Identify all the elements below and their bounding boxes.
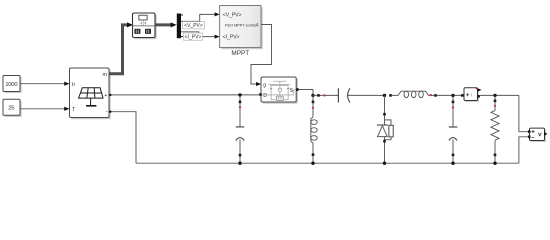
- stem: [142, 20, 144, 26]
- node diode junction: [383, 94, 386, 97]
- port square inductor L2 right: [434, 94, 437, 97]
- MOSFET icon: [262, 81, 296, 100]
- red node: [323, 94, 325, 96]
- svg-text:<I_PV>: <I_PV>: [223, 35, 240, 41]
- port square D1 top: [383, 113, 386, 116]
- svg-text:<V_PV>: <V_PV>: [223, 12, 242, 18]
- node C2 bottom: [451, 162, 454, 165]
- meter arrows: [140, 22, 142, 25]
- port square current measurement in: [461, 94, 464, 97]
- capacitor C1: [236, 95, 245, 163]
- signal wire V_PV: [181, 12, 220, 21]
- port square series cap left: [317, 94, 320, 97]
- node D1 bottom: [383, 162, 386, 165]
- node PV+: [109, 94, 111, 96]
- connector square left: [134, 29, 140, 34]
- bus wire to bus selector: [155, 22, 177, 27]
- wire series cap to diode node: [347, 94, 385, 96]
- signal v out arrow: [544, 132, 548, 136]
- svg-text:+: +: [104, 93, 107, 99]
- constant block Ir=1000: [3, 76, 22, 94]
- bottom rail: [136, 162, 519, 164]
- MPPT subsystem block U1: [220, 6, 263, 50]
- svg-text:P&O MPPT control: P&O MPPT control: [225, 23, 257, 27]
- wire 1000 to Ir: [21, 82, 70, 86]
- svg-text:<V_PV>: <V_PV>: [184, 23, 203, 29]
- svg-text:S: S: [290, 88, 294, 94]
- signal out arrow: [478, 88, 482, 91]
- node cap C2 top junction: [451, 94, 454, 97]
- wire L2 to current measurement: [437, 94, 462, 96]
- node R1 bottom: [493, 162, 496, 165]
- inductor L1 shunt: [311, 95, 317, 163]
- svg-text:D: D: [263, 93, 267, 99]
- node L1 bottom: [311, 162, 314, 165]
- wire S node to series capacitor: [313, 94, 338, 96]
- svg-text:Ir: Ir: [72, 82, 75, 88]
- signal wire I_PV: [181, 32, 220, 39]
- wire 25 to T: [21, 107, 70, 111]
- node cap C1 top junction: [238, 93, 241, 96]
- wire PV minus down: [110, 112, 137, 164]
- port square R1 bottom: [494, 154, 497, 157]
- svg-text:MPPT: MPPT: [231, 50, 249, 57]
- node C1 bottom: [238, 162, 241, 165]
- voltage measurement block: [530, 128, 548, 142]
- wire corner down to Vmeas plus: [519, 95, 528, 131]
- current measurement block: [464, 88, 482, 102]
- label V_PV: [183, 22, 205, 29]
- solar panel icon: [79, 88, 103, 106]
- display icon: [139, 15, 147, 20]
- red node L1: [312, 107, 314, 109]
- wire current measurement to corner: [480, 94, 519, 96]
- PV array block: [70, 68, 111, 119]
- divider: [133, 25, 156, 27]
- bus selector: [177, 14, 183, 39]
- port square D: [259, 93, 262, 96]
- inductor L2 series: [392, 91, 434, 97]
- bus wire m to measurement subsystem: [109, 22, 133, 73]
- node resistor top junction: [493, 94, 496, 97]
- port square current measurement out: [477, 95, 480, 98]
- diode D1: [377, 95, 393, 163]
- wire MOSFET S jog: [299, 90, 313, 96]
- measurement subsystem block: [133, 13, 157, 39]
- red node: [430, 94, 432, 96]
- red mark: [476, 88, 478, 90]
- port square L1 bottom: [312, 153, 315, 156]
- port square S: [296, 88, 299, 91]
- port square R1 top: [494, 100, 497, 103]
- red node R1: [494, 105, 496, 107]
- port square inductor L2 left: [389, 94, 392, 97]
- gate signal wire MPPT to MOSFET g: [251, 25, 272, 87]
- port square Vmeas minus: [528, 136, 531, 139]
- label I_PV: [184, 33, 203, 40]
- node S junction: [311, 94, 314, 97]
- svg-text:m: m: [103, 72, 108, 78]
- capacitor C2: [449, 95, 458, 163]
- port square L1 top: [312, 101, 315, 104]
- resistor R1 load: [491, 95, 499, 163]
- port square Vmeas plus: [528, 130, 531, 133]
- node PV minus: [109, 111, 111, 113]
- svg-text:-: -: [106, 110, 108, 116]
- port square D1 bottom: [383, 140, 386, 143]
- svg-text:g: g: [263, 83, 266, 89]
- svg-text:<I_PV>: <I_PV>: [185, 34, 202, 40]
- MOSFET block Q1: [261, 77, 298, 104]
- svg-text:25: 25: [8, 106, 15, 112]
- connector square right: [145, 29, 151, 34]
- wire Vmeas minus to rail: [519, 137, 528, 163]
- series capacitor plates: [338, 88, 350, 102]
- wire PV+ to MOSFET D: [109, 94, 259, 96]
- svg-text:1000: 1000: [5, 82, 18, 88]
- constant block T=25: [3, 99, 22, 117]
